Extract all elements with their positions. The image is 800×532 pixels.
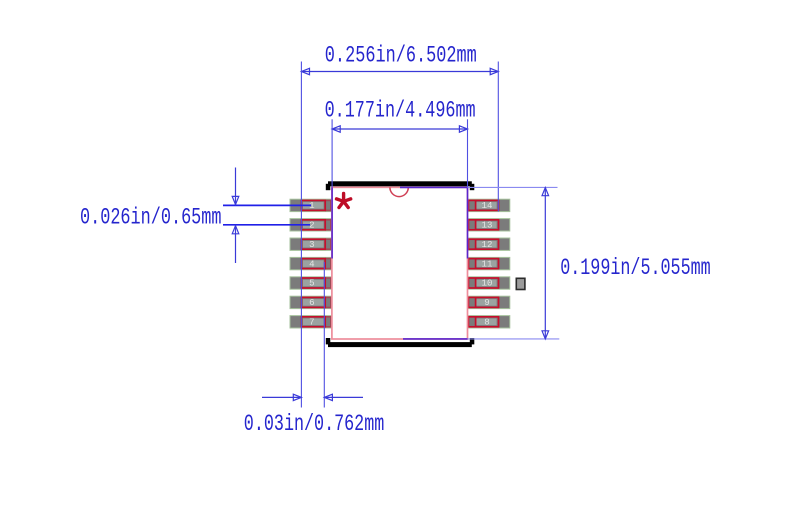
bottom solder paste bar: [326, 338, 475, 347]
svg-text:12: 12: [482, 239, 493, 250]
dimension 0.026in/0.65mm arrows: [232, 168, 239, 264]
pin 2 pad: [290, 219, 332, 231]
extension line right of 0.03 dim: [323, 262, 325, 408]
body bottom edge extension line: [403, 338, 559, 340]
svg-text:14: 14: [482, 200, 493, 211]
pin 2 center extension line: [223, 224, 310, 226]
package marker square: [516, 278, 525, 289]
svg-text:3: 3: [309, 239, 314, 250]
pin 5 pad: [290, 277, 332, 289]
pin 1 center extension line: [223, 204, 311, 206]
pin 6 pad: [290, 296, 332, 308]
svg-text:10: 10: [482, 278, 493, 289]
pin 4 pad: [290, 257, 332, 269]
svg-text:6: 6: [309, 297, 314, 308]
top solder paste bar: [326, 181, 475, 190]
extension line right of 0.177 dim: [467, 119, 469, 258]
dimension 0.177in/4.496mm line: [332, 126, 467, 132]
pin 1 index notch arc: [390, 187, 408, 196]
svg-text:0.256in/6.502mm: 0.256in/6.502mm: [325, 42, 477, 68]
svg-text:0.199in/5.055mm: 0.199in/5.055mm: [560, 255, 711, 281]
svg-text:0.03in/0.762mm: 0.03in/0.762mm: [244, 411, 384, 437]
svg-text:0.026in/0.65mm: 0.026in/0.65mm: [80, 204, 222, 230]
pin 1 marker asterisk: [337, 194, 351, 208]
svg-text:7: 7: [309, 317, 314, 328]
extension line left of 0.256 dim: [300, 62, 302, 408]
dimension 0.256in/6.502mm line: [301, 68, 498, 74]
pin 12 pad: [468, 238, 510, 250]
pin 10 pad: [468, 277, 510, 289]
pin 1 pad: [290, 199, 332, 211]
pin 9 pad: [468, 296, 510, 308]
svg-text:0.177in/4.496mm: 0.177in/4.496mm: [325, 98, 476, 124]
pin 8 pad: [468, 316, 510, 328]
svg-text:9: 9: [484, 297, 489, 308]
pin 7 pad: [290, 316, 332, 328]
extension line right of 0.256 dim: [497, 62, 499, 212]
pin 13 pad: [468, 219, 510, 231]
pin 14 pad: [468, 199, 510, 211]
pin 3 pad: [290, 238, 332, 250]
dimension 0.03in/0.762mm arrows: [262, 394, 363, 400]
svg-text:11: 11: [482, 258, 493, 269]
svg-text:4: 4: [309, 258, 314, 269]
body top edge extension line: [400, 186, 558, 188]
svg-text:8: 8: [484, 317, 489, 328]
package body outline: [332, 187, 468, 339]
extension line left of 0.177 dim: [331, 119, 333, 258]
svg-text:5: 5: [309, 278, 314, 289]
pin 11 pad: [468, 257, 510, 269]
dimension 0.199in/5.055mm line: [542, 188, 549, 339]
svg-text:13: 13: [482, 220, 493, 231]
